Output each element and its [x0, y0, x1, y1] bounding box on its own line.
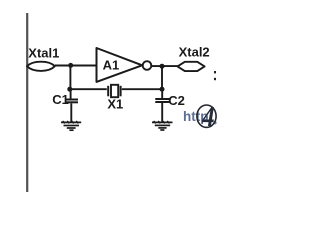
wire input node down: [69, 65, 71, 89]
svg-text:4: 4: [201, 100, 214, 132]
svg-text:Xtal2: Xtal2: [179, 44, 210, 59]
crystal X1 body: [111, 85, 118, 97]
wire C1 bottom lead: [70, 103, 72, 122]
wire bubble to Xtal2: [151, 65, 178, 67]
svg-text:C2: C2: [168, 93, 185, 108]
junction dot output node: [160, 64, 165, 69]
svg-text:Xtal1: Xtal1: [28, 45, 59, 60]
junction dot bottom right: [160, 87, 165, 92]
junction dot bottom left: [67, 87, 72, 92]
crystal X1 right plate: [120, 86, 122, 97]
capacitor C2 top plate: [155, 98, 170, 100]
wire output node down: [161, 66, 163, 89]
wire Xtal1 to inverter input: [55, 65, 97, 67]
stray colon mark: [214, 71, 216, 73]
ground left: [61, 121, 81, 130]
left page border line: [26, 13, 28, 192]
capacitor C1 bottom plate: [66, 101, 78, 103]
wire C2 bottom lead: [161, 103, 163, 122]
inverter output bubble: [143, 61, 152, 70]
wire bottom left segment: [70, 88, 106, 90]
svg-text:A1: A1: [103, 57, 120, 72]
port terminal Xtal2: [178, 62, 205, 71]
junction dot input node: [68, 63, 73, 68]
port terminal Xtal1: [27, 62, 55, 71]
crystal X1 left plate: [107, 86, 109, 97]
ground right: [152, 121, 173, 130]
watermark dot: [213, 121, 216, 124]
watermark circle logo: [197, 105, 216, 127]
op-amp inverter A1 triangle: [97, 48, 143, 82]
wire bottom right segment: [122, 88, 162, 90]
wire C2 top lead: [161, 89, 163, 99]
capacitor C2 bottom plate: [155, 101, 170, 103]
wire C1 top lead: [70, 89, 72, 100]
svg-text:X1: X1: [107, 97, 123, 112]
watermark numeral 4: [201, 100, 214, 132]
capacitor C1 top plate: [66, 99, 78, 101]
